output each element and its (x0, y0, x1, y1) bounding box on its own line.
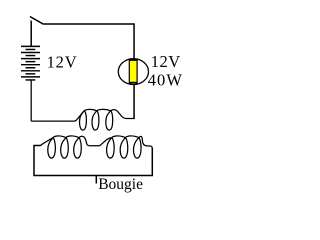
switch blade (30, 17, 43, 24)
lamp DS1 bulb outline (118, 59, 148, 85)
wire right lamp to primary coil (133, 85, 135, 119)
switch S1 pole wire (30, 21, 32, 47)
lamp filament yellow (130, 61, 137, 82)
wire bougie loop bracket (34, 146, 152, 176)
lamp filament holder (129, 59, 138, 84)
svg-text:40W: 40W (148, 71, 183, 90)
inductor L2 secondary coil (40, 136, 152, 158)
svg-text:Bougie: Bougie (98, 176, 143, 193)
inductor L1 primary coil with feed wires (31, 80, 135, 130)
battery B1 12V (21, 46, 40, 80)
svg-text:12V: 12V (47, 53, 78, 72)
wire bougie label tick (95, 176, 97, 184)
svg-text:12V: 12V (151, 52, 181, 71)
wire top (43, 24, 134, 59)
